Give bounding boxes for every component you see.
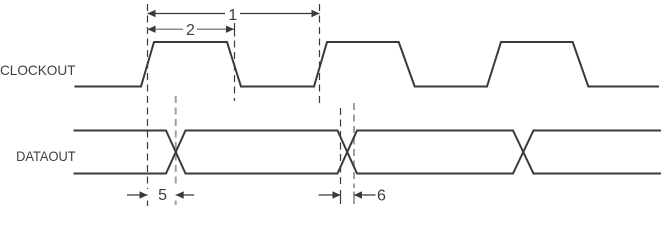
gray dashed line at data crossover 1 [175,96,177,187]
dimension 6 left arrow [319,194,341,196]
DATAOUT bus bottom line with crossovers [74,131,661,174]
dimension 5 left arrow [127,194,148,196]
dimension line 1 (clock period) [148,13,320,15]
svg-text:1: 1 [228,7,237,24]
dimension 5 right arrow [176,194,195,196]
dashed reference line at clock rise edge 1 [147,4,149,189]
dashed reference line at clock rise edge 2 [319,4,321,107]
dashed reference line at clock fall edge 1 [234,23,236,37]
gray dashed line at data transition 2 end [353,103,355,188]
DATAOUT bus top line with crossovers [74,131,661,174]
CLOCKOUT waveform [75,42,660,87]
svg-text:5: 5 [158,187,167,204]
svg-text:2: 2 [186,22,195,39]
svg-text:6: 6 [377,188,386,205]
svg-text:DATAOUT: DATAOUT [16,148,76,164]
svg-text:CLOCKOUT: CLOCKOUT [0,62,76,78]
dimension 6 right arrow [354,194,376,196]
dashed reference line at data transition 2 start [340,108,342,188]
dimension line 2 (clock high pulse) [148,28,235,30]
